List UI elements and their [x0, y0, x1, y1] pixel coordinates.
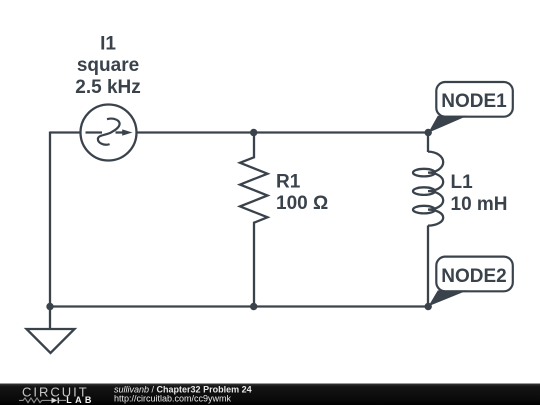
- svg-text:L1: L1: [451, 172, 474, 193]
- junction dot bottom resistor: [250, 303, 257, 310]
- junction dot bottom left: [46, 303, 53, 310]
- inductor L1: [413, 152, 443, 226]
- svg-text:square: square: [77, 55, 139, 76]
- label R1 100 Ohm: [276, 172, 328, 215]
- footer text: [114, 384, 252, 403]
- wire top-left horizontal: [50, 131, 82, 133]
- svg-text:http://circuitlab.com/cc9ywmk: http://circuitlab.com/cc9ywmk: [114, 393, 232, 403]
- wire right vertical lower: [427, 226, 429, 307]
- footer bar: [0, 384, 540, 405]
- wire top horizontal: [136, 131, 429, 133]
- svg-text:NODE1: NODE1: [441, 91, 507, 112]
- wire bottom horizontal: [50, 305, 428, 307]
- svg-text:100 Ω: 100 Ω: [276, 193, 328, 214]
- junction dot NODE1: [425, 129, 432, 136]
- svg-text:2.5 kHz: 2.5 kHz: [75, 77, 140, 98]
- current source I1: [81, 105, 137, 161]
- svg-text:10 mH: 10 mH: [451, 194, 508, 215]
- svg-text:NODE2: NODE2: [441, 266, 506, 287]
- node NODE1 callout: [428, 82, 513, 133]
- node NODE2 callout: [428, 257, 512, 307]
- svg-text:R1: R1: [276, 172, 301, 193]
- ground: [27, 307, 75, 354]
- svg-text:LAB: LAB: [66, 395, 94, 405]
- resistor R1: [240, 133, 268, 307]
- junction dot top resistor: [250, 129, 257, 136]
- svg-text:I1: I1: [100, 33, 116, 54]
- label I1 square 2.5 kHz: [75, 33, 140, 97]
- label L1 10 mH: [451, 172, 508, 215]
- wire right vertical upper: [427, 133, 429, 153]
- CircuitLab logo: [19, 384, 95, 405]
- wire left vertical: [49, 132, 51, 307]
- junction dot NODE2: [425, 303, 432, 310]
